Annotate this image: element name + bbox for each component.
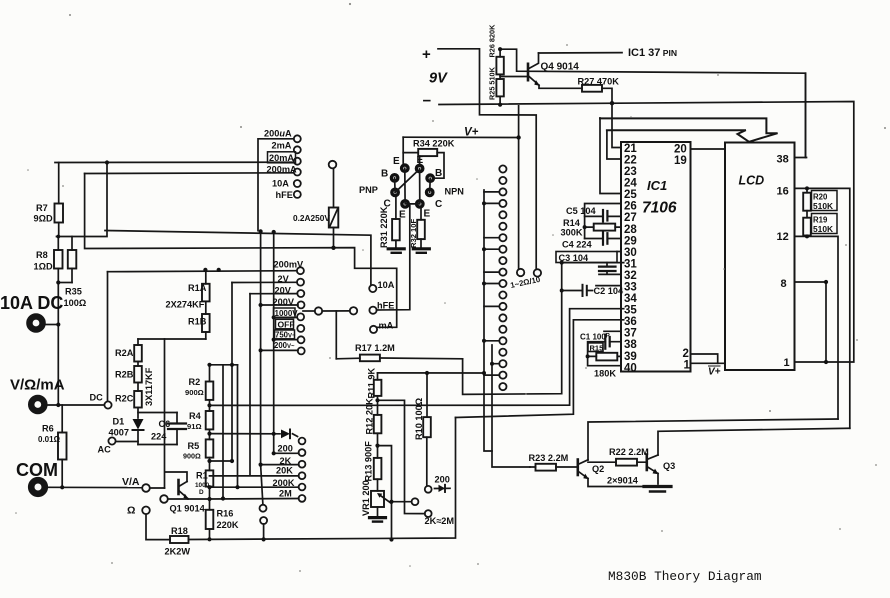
node 20V contact — [250, 290, 304, 297]
wire wiper to R17 — [335, 311, 337, 359]
svg-text:20V: 20V — [275, 286, 292, 296]
potentiometer VR1 — [371, 491, 392, 517]
fuse F1 — [329, 168, 339, 248]
transistor Q3 — [647, 455, 659, 485]
svg-text:Ω: Ω — [127, 505, 135, 517]
node pin31 junction — [560, 261, 564, 293]
capacitor C3 — [599, 263, 621, 275]
transistor socket mid-left pin — [390, 188, 400, 198]
wire 200mV rail — [108, 271, 297, 272]
svg-text:1ΩD: 1ΩD — [34, 262, 53, 272]
wire IC pin20 to LCD — [691, 148, 726, 150]
svg-text:R1A: R1A — [188, 283, 207, 293]
wire IC pin1 — [691, 362, 726, 364]
svg-text:10A: 10A — [272, 178, 289, 188]
svg-text:V/A: V/A — [122, 476, 140, 488]
svg-text:28: 28 — [624, 224, 637, 236]
wire 2K line to lower contact — [261, 465, 263, 505]
wire 200K tap — [210, 365, 299, 487]
node Q1 base contact — [160, 495, 188, 503]
terminal 10A DC — [29, 316, 42, 329]
svg-text:27: 27 — [624, 212, 637, 224]
svg-text:R22 2.2M: R22 2.2M — [609, 447, 649, 457]
svg-text:V/Ω/mA: V/Ω/mA — [10, 377, 65, 394]
resistor R7 — [55, 163, 64, 237]
ground R31 — [388, 249, 404, 253]
svg-text:R6: R6 — [42, 424, 54, 434]
resistor R11 — [374, 373, 382, 415]
node bus junction dots — [482, 201, 494, 375]
resistor R27 — [582, 85, 612, 103]
svg-text:220K: 220K — [217, 520, 239, 530]
svg-text:R10 100Ω: R10 100Ω — [414, 398, 424, 440]
svg-text:200mV: 200mV — [274, 259, 304, 269]
node R15 left dot — [586, 354, 590, 358]
wire rail Q2 collector — [588, 419, 838, 460]
wire IC pin37 stub — [604, 330, 621, 332]
wire R11-R12 junction to 2K2M contact — [378, 400, 425, 513]
svg-text:10A: 10A — [378, 280, 395, 290]
capacitor C4 — [585, 232, 621, 245]
svg-text:200uA: 200uA — [264, 129, 292, 139]
svg-text:V+: V+ — [708, 367, 721, 378]
wire LCD pin12 — [795, 236, 839, 419]
node range circle right — [534, 269, 541, 276]
svg-text:R31 220K: R31 220K — [379, 206, 389, 248]
wire IC pin22 — [607, 130, 621, 159]
svg-text:C4 224: C4 224 — [562, 240, 593, 250]
resistor R25 — [496, 74, 503, 104]
svg-text:R17 1.2M: R17 1.2M — [355, 343, 395, 353]
node lower contact B — [260, 517, 267, 539]
resistor R2C — [134, 391, 142, 418]
svg-text:VR1 200: VR1 200 — [361, 480, 371, 516]
diode D1 — [133, 419, 144, 445]
box R19 label — [812, 214, 838, 234]
svg-text:E: E — [417, 155, 424, 166]
node 2K2M contact — [425, 510, 432, 517]
node 200V contact — [298, 301, 305, 308]
IC1 pin numbers left — [624, 143, 637, 374]
transistor socket E top-right pin — [415, 164, 425, 174]
wire junction R7/R8/R35 — [57, 163, 108, 237]
svg-text:20K: 20K — [276, 465, 293, 475]
svg-text:R1B: R1B — [188, 316, 207, 326]
transistor Q4 — [528, 53, 582, 88]
node 2K contact — [299, 461, 306, 468]
svg-text:2×9014: 2×9014 — [607, 476, 639, 486]
node 200uA contact — [258, 135, 301, 230]
node AC contact — [108, 437, 138, 444]
resistor R8 — [54, 237, 63, 406]
svg-text:R34 220K: R34 220K — [413, 138, 455, 148]
svg-text:19: 19 — [674, 155, 687, 167]
node lower contact A — [260, 505, 267, 512]
svg-text:1000V: 1000V — [275, 309, 299, 318]
wire R17 rail to pin31 rail — [463, 263, 624, 395]
svg-text:200: 200 — [278, 444, 293, 454]
node ohm diode contact — [299, 438, 306, 445]
wire rotary bus A — [484, 190, 492, 451]
node junction dots mid — [375, 371, 429, 542]
resistor R12 — [374, 415, 382, 458]
svg-text:25: 25 — [624, 189, 637, 201]
svg-text:R7: R7 — [36, 203, 48, 213]
svg-text:100Ω: 100Ω — [64, 298, 87, 308]
svg-text:200mA: 200mA — [267, 165, 297, 175]
svg-text:R14: R14 — [563, 218, 581, 228]
svg-text:9V: 9V — [429, 71, 448, 87]
wire R2 top rail — [210, 364, 238, 366]
wire fuse feed rail — [85, 174, 397, 328]
resistor R19 — [803, 218, 811, 237]
transistor socket B left pin — [390, 173, 400, 183]
svg-text:B: B — [381, 169, 388, 180]
svg-text:V+: V+ — [464, 127, 479, 139]
svg-text:IC1: IC1 — [647, 178, 667, 193]
svg-text:2X274KF: 2X274KF — [166, 300, 205, 310]
IC1 7106 box — [621, 142, 691, 372]
svg-text:IC1 37 PIN: IC1 37 PIN — [628, 47, 677, 59]
svg-text:−: − — [423, 93, 432, 110]
transistor Q1 — [179, 480, 210, 499]
node junction dots left — [56, 160, 221, 489]
diode ohm-range — [281, 430, 290, 439]
svg-text:2V: 2V — [278, 274, 290, 284]
label socket pins — [381, 155, 442, 221]
transistor socket C bottom-right pin — [415, 199, 425, 209]
svg-text:900Ω: 900Ω — [185, 388, 204, 397]
wire 10A jack to shunt — [46, 324, 59, 326]
wire V+ drop to socket — [402, 137, 404, 163]
wire IC pin2 — [691, 354, 718, 363]
node divider taps dots — [207, 303, 275, 542]
svg-text:R8: R8 — [36, 250, 48, 260]
svg-text:mA: mA — [379, 320, 394, 330]
svg-text:7106: 7106 — [642, 200, 677, 217]
wire LCD pin38 — [795, 73, 807, 157]
LCD pin numbers — [777, 154, 790, 370]
capacitor C1 — [588, 335, 621, 366]
svg-text:C3 104: C3 104 — [559, 253, 590, 263]
svg-text:38: 38 — [777, 154, 789, 166]
ground VR1 — [370, 518, 386, 522]
svg-text:8: 8 — [781, 278, 787, 290]
node 2mA contact — [294, 146, 301, 153]
svg-text:R27 470K: R27 470K — [578, 77, 620, 87]
wire bus stubs — [484, 192, 499, 375]
svg-text:R18: R18 — [171, 526, 188, 536]
svg-text:R16: R16 — [217, 509, 234, 519]
node 750Vac contact — [298, 336, 305, 343]
svg-text:200K: 200K — [273, 478, 295, 488]
resistor R2B — [134, 366, 142, 391]
svg-text:R35: R35 — [65, 287, 82, 297]
svg-text:R25 510K: R25 510K — [488, 66, 497, 100]
node 200ohm contact — [299, 449, 306, 456]
node 200Vac contact — [298, 347, 305, 354]
svg-text:20: 20 — [674, 144, 687, 156]
svg-text:30: 30 — [624, 247, 637, 259]
wire bottom ohm rail — [210, 418, 456, 540]
wire V+ rail — [403, 136, 518, 138]
svg-text:1: 1 — [784, 357, 790, 369]
svg-text:32: 32 — [624, 270, 637, 282]
wire COM rail — [45, 486, 142, 488]
svg-text:0.2A250V: 0.2A250V — [293, 213, 330, 223]
resistor R10 — [423, 373, 431, 486]
svg-text:180K: 180K — [594, 369, 616, 379]
wire pin35 long rail — [210, 309, 624, 406]
svg-text:Q4 9014: Q4 9014 — [541, 62, 580, 73]
svg-text:2: 2 — [683, 348, 689, 360]
box R15 label — [588, 343, 603, 352]
diode small 200 range — [435, 485, 451, 492]
svg-text:10A DC: 10A DC — [0, 293, 63, 313]
node rotary contacts column — [499, 165, 506, 390]
node wiper contact left — [303, 307, 322, 314]
wire rail Q3 collector — [658, 428, 850, 455]
svg-text:R13 900F: R13 900F — [364, 441, 374, 482]
svg-text:R1: R1 — [196, 471, 208, 481]
svg-text:1000: 1000 — [195, 482, 210, 489]
svg-text:29: 29 — [624, 235, 637, 247]
node R14 left dot — [583, 225, 587, 229]
wire rail 200mA row — [85, 172, 294, 175]
wire IC pin21 — [612, 103, 621, 147]
svg-text:R23 2.2M: R23 2.2M — [529, 453, 569, 463]
svg-text:C1 100P: C1 100P — [580, 333, 610, 342]
svg-text:R2C: R2C — [115, 394, 134, 404]
svg-text:900Ω: 900Ω — [183, 452, 201, 461]
svg-text:200V: 200V — [273, 297, 295, 307]
wire 1000V branch — [274, 316, 297, 318]
wire R11 top rail — [378, 372, 485, 374]
wire 750Vac branch — [274, 339, 297, 341]
wire 2V tap — [210, 283, 233, 462]
svg-text:C2 104: C2 104 — [594, 286, 625, 296]
wire wiper node to 200 contact — [392, 501, 412, 503]
transistor socket C bottom-left pin — [400, 199, 410, 209]
svg-text:D1: D1 — [113, 417, 125, 427]
wire LCD pin8 — [795, 282, 827, 362]
svg-text:R2B: R2B — [115, 370, 134, 380]
LCD box — [725, 143, 795, 371]
transistor Q2 — [578, 460, 652, 487]
wire Q1 collector loop — [165, 339, 188, 488]
svg-text:hFE: hFE — [276, 190, 293, 200]
svg-text:40: 40 — [624, 362, 637, 374]
svg-text:C: C — [435, 199, 442, 210]
resistor R1B — [138, 314, 210, 339]
svg-text:hFE: hFE — [377, 301, 394, 311]
node 2V contact — [232, 279, 304, 286]
svg-text:39: 39 — [624, 351, 637, 363]
bus arrow IC to LCD — [600, 118, 778, 141]
svg-text:200: 200 — [435, 475, 450, 485]
transistor socket B right pin — [425, 173, 435, 183]
svg-text:510K: 510K — [813, 201, 833, 211]
capacitor C2 — [562, 285, 621, 296]
box OFF label — [276, 319, 294, 329]
wire IC pin26 stub — [585, 204, 621, 239]
resistor R23 — [530, 464, 577, 471]
svg-text:NPN: NPN — [445, 187, 465, 197]
wire diode row — [210, 434, 298, 437]
rail 10A row — [105, 231, 371, 285]
wire rotary bus B to R23 — [492, 345, 530, 467]
svg-text:34: 34 — [624, 293, 637, 305]
resistor R2A — [134, 339, 142, 366]
resistor R34 — [403, 149, 444, 178]
svg-text:R2: R2 — [189, 377, 201, 387]
box R20 label — [812, 191, 838, 211]
resistor R6 — [58, 405, 67, 487]
wire IC pin25 — [600, 118, 621, 194]
svg-text:24: 24 — [624, 178, 637, 190]
svg-text:23: 23 — [624, 166, 637, 178]
terminal V/ohm/mA — [31, 398, 44, 411]
resistor R26 — [496, 49, 805, 157]
svg-text:R2A: R2A — [115, 348, 134, 358]
transistor socket mid-right pin — [425, 188, 435, 198]
svg-text:R26 820K: R26 820K — [488, 24, 497, 58]
svg-text:R12 20K: R12 20K — [365, 398, 375, 435]
resistor R13 — [374, 458, 382, 491]
svg-text:+: + — [422, 46, 431, 63]
svg-text:31: 31 — [624, 258, 637, 270]
wire 200V-2K tap — [261, 231, 299, 464]
resistor R22 — [588, 459, 646, 466]
ground R32 — [413, 249, 429, 253]
wire V jack to DC contact — [45, 404, 104, 406]
node mA range contact — [370, 326, 377, 333]
node range circle left — [517, 106, 524, 276]
svg-text:16: 16 — [777, 186, 789, 198]
svg-text:2K≈2M: 2K≈2M — [425, 516, 455, 526]
resistor R1A — [202, 270, 210, 314]
capacitor C6 — [138, 413, 186, 445]
node DC contact — [104, 272, 111, 409]
svg-text:R32 10F: R32 10F — [409, 219, 418, 248]
svg-text:E: E — [399, 210, 406, 221]
node hFE range contact — [369, 206, 409, 314]
svg-text:2K2W: 2K2W — [165, 547, 191, 557]
capacitor C5 — [585, 210, 621, 222]
svg-text:AC: AC — [98, 445, 112, 455]
svg-text:0.01Ω: 0.01Ω — [38, 435, 61, 444]
node 1000V contact — [297, 313, 304, 320]
resistor R5 — [206, 439, 214, 470]
node OFF contact — [297, 325, 304, 332]
node 10A range contact — [369, 285, 376, 292]
svg-text:COM: COM — [16, 460, 58, 480]
node ohm input contact — [142, 507, 170, 540]
wire 200Vac branch — [261, 349, 298, 351]
svg-text:1: 1 — [684, 360, 691, 372]
svg-text:510K: 510K — [813, 224, 833, 234]
node 20K contact — [299, 472, 306, 479]
wire Q4 base — [500, 76, 527, 78]
svg-text:E: E — [424, 209, 431, 220]
svg-text:224: 224 — [151, 432, 167, 442]
node fuse bottom junction — [259, 229, 336, 250]
svg-text:2M: 2M — [279, 489, 292, 499]
box 20mA label — [268, 152, 296, 163]
node 10A contact (current) — [294, 180, 301, 187]
svg-text:Q3: Q3 — [663, 461, 675, 471]
svg-text:12: 12 — [777, 231, 789, 243]
svg-text:26: 26 — [624, 201, 637, 213]
svg-text:PNP: PNP — [359, 185, 378, 195]
svg-text:4007: 4007 — [109, 428, 129, 438]
svg-text:36: 36 — [624, 316, 637, 328]
svg-text:C5 104: C5 104 — [566, 206, 597, 216]
svg-text:37: 37 — [624, 328, 637, 340]
svg-text:D: D — [199, 489, 204, 496]
svg-text:B: B — [435, 168, 442, 179]
node mid 200 contact — [412, 498, 419, 505]
wire 200V branch — [261, 304, 298, 306]
resistor R4 — [206, 411, 214, 439]
node fuse top contact — [329, 161, 337, 169]
node 200mV contact — [297, 267, 304, 274]
resistor R2 — [206, 365, 214, 411]
box 750V label — [275, 330, 295, 339]
box C3 label — [556, 252, 617, 263]
svg-text:Q2: Q2 — [592, 464, 604, 474]
svg-text:R4: R4 — [189, 411, 202, 421]
transistor socket E top-left pin — [400, 163, 410, 173]
svg-text:2mA: 2mA — [272, 141, 292, 151]
svg-text:22: 22 — [624, 155, 637, 167]
svg-text:3X117KF: 3X117KF — [144, 367, 154, 406]
wire rail to pin36 — [456, 320, 624, 418]
resistor R17 — [336, 355, 462, 362]
node R10 bottom contact — [425, 486, 432, 493]
resistor R18 — [170, 536, 210, 543]
terminal COM — [31, 480, 45, 494]
resistor R31 — [392, 197, 400, 247]
svg-text:C6: C6 — [159, 419, 171, 429]
node wiper contact right — [322, 307, 357, 314]
svg-text:R15: R15 — [590, 343, 604, 352]
node pin8 dot — [805, 186, 828, 364]
battery minus rail — [439, 102, 854, 363]
svg-text:91Ω: 91Ω — [187, 422, 202, 431]
wire R12-R13 junction branch — [378, 446, 392, 540]
resistor R15 — [588, 353, 621, 361]
node hFE contact (current col) — [294, 191, 301, 198]
svg-text:M830B Theory Diagram: M830B Theory Diagram — [608, 569, 762, 584]
wire 2M tap — [210, 365, 299, 499]
svg-text:33: 33 — [624, 282, 637, 294]
node 2M contact — [299, 495, 306, 502]
svg-text:R11 9K: R11 9K — [367, 367, 377, 398]
resistor R35 — [58, 237, 76, 283]
wire socket internal links — [395, 168, 431, 204]
wire 1000V vertical — [274, 232, 299, 453]
battery plus lead — [438, 49, 536, 269]
svg-text:E: E — [393, 156, 400, 167]
wire 20V-20K tap — [210, 294, 299, 476]
svg-text:38: 38 — [624, 339, 637, 351]
svg-text:9ΩD: 9ΩD — [34, 214, 53, 224]
ground Q3 — [644, 487, 671, 492]
node V/A contact — [142, 484, 164, 492]
resistor R32 — [417, 209, 425, 248]
svg-text:35: 35 — [624, 305, 637, 317]
